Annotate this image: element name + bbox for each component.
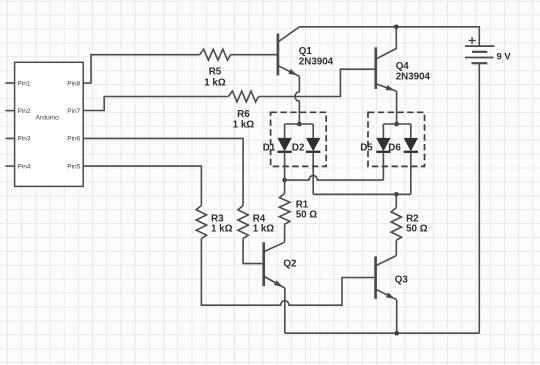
svg-text:Q2: Q2 <box>283 259 297 270</box>
svg-text:D1: D1 <box>263 142 276 153</box>
wire Pin5 to R3 <box>83 166 201 205</box>
wire R3 to Q3 base (hops over Q2 emitter) <box>201 238 374 305</box>
pin Pin6 label <box>67 136 80 143</box>
pin Pin7 label <box>67 108 80 115</box>
dashed box around D1 D2 <box>271 112 327 166</box>
wire Pin8 to R5 <box>83 55 199 83</box>
wire Q3 emitter to bottom rail <box>396 300 398 334</box>
svg-text:50 Ω: 50 Ω <box>406 224 428 235</box>
svg-text:Q3: Q3 <box>395 274 409 285</box>
svg-text:Pin1: Pin1 <box>18 80 31 87</box>
svg-text:1 kΩ: 1 kΩ <box>211 223 233 234</box>
pin Pin4 stub <box>6 163 31 170</box>
svg-text:D5: D5 <box>360 142 373 153</box>
svg-text:Pin8: Pin8 <box>67 80 80 87</box>
resistor R1 <box>279 180 317 242</box>
svg-text:2N3904: 2N3904 <box>396 71 431 82</box>
node junction top rail / Q4 collector <box>394 25 399 30</box>
node junction D1 cathode / R1 top <box>282 178 287 183</box>
svg-text:Pin7: Pin7 <box>67 108 80 115</box>
pin Pin3 stub <box>6 136 31 143</box>
wire Pin7 to R6 <box>83 97 228 111</box>
resistor R5 <box>200 49 231 88</box>
wire top rail Q1 collector to battery + <box>299 27 479 46</box>
transistor Q2 <box>264 242 297 288</box>
svg-text:Q4: Q4 <box>396 61 410 72</box>
dashed box around D5 D6 <box>368 112 425 166</box>
svg-text:R6: R6 <box>237 109 250 120</box>
svg-text:R5: R5 <box>209 67 222 78</box>
pin Pin5 label <box>67 163 80 170</box>
pin Pin1 stub <box>6 80 31 87</box>
node junction D1/D2 anodes <box>285 122 314 127</box>
wire Q1 emitter down, hops left over R6 wire <box>295 76 299 124</box>
wire bottom rail to battery - <box>285 332 480 334</box>
wire R4 to Q2 base <box>243 238 262 263</box>
svg-text:Pin5: Pin5 <box>67 163 80 170</box>
transistor Q1 2N3904 <box>278 27 334 77</box>
node junction D2/D6 cathodes / R2 top <box>313 192 411 197</box>
svg-text:1 kΩ: 1 kΩ <box>233 119 255 130</box>
svg-text:Arduino: Arduino <box>35 115 59 122</box>
svg-text:D2: D2 <box>292 142 305 153</box>
svg-text:2N3904: 2N3904 <box>299 56 334 67</box>
node junction D5/D6 anodes <box>383 122 410 127</box>
pin Pin2 stub <box>6 108 31 115</box>
wire R6 to Q4 base <box>259 69 375 96</box>
wire Q2 emitter to bottom rail <box>284 288 286 333</box>
wire Pin6 to R4 <box>83 138 243 205</box>
resistor R6 <box>228 91 258 130</box>
resistor R3 <box>196 206 232 239</box>
svg-text:50 Ω: 50 Ω <box>296 209 318 220</box>
wire R5 to Q1 base <box>231 54 277 56</box>
wire D1 cathode to D5 cathode (hops over D2 line) <box>285 176 384 181</box>
svg-text:Pin4: Pin4 <box>18 163 31 170</box>
node junction Q3 emitter / bottom rail <box>394 331 399 336</box>
svg-text:9 V: 9 V <box>497 51 512 62</box>
svg-text:Pin2: Pin2 <box>18 108 31 115</box>
svg-text:Q1: Q1 <box>299 46 313 57</box>
transistor Q4 2N3904 <box>376 27 431 91</box>
svg-text:Pin6: Pin6 <box>67 136 80 143</box>
svg-text:D6: D6 <box>388 142 401 153</box>
svg-text:1 kΩ: 1 kΩ <box>204 77 226 88</box>
wire Q4 emitter to diode box <box>396 91 398 124</box>
transistor Q3 <box>376 256 409 300</box>
diode D6 <box>388 124 418 194</box>
battery BT1 9V <box>465 37 511 333</box>
svg-text:1 kΩ: 1 kΩ <box>253 223 275 234</box>
pin Pin8 label <box>67 80 80 87</box>
IC U1 Arduino body <box>15 62 84 186</box>
diode D1 <box>263 124 292 180</box>
diode D5 <box>360 124 390 180</box>
resistor R2 <box>391 194 428 255</box>
svg-text:Pin3: Pin3 <box>18 136 31 143</box>
diode D2 <box>292 124 321 194</box>
resistor R4 <box>238 206 274 239</box>
